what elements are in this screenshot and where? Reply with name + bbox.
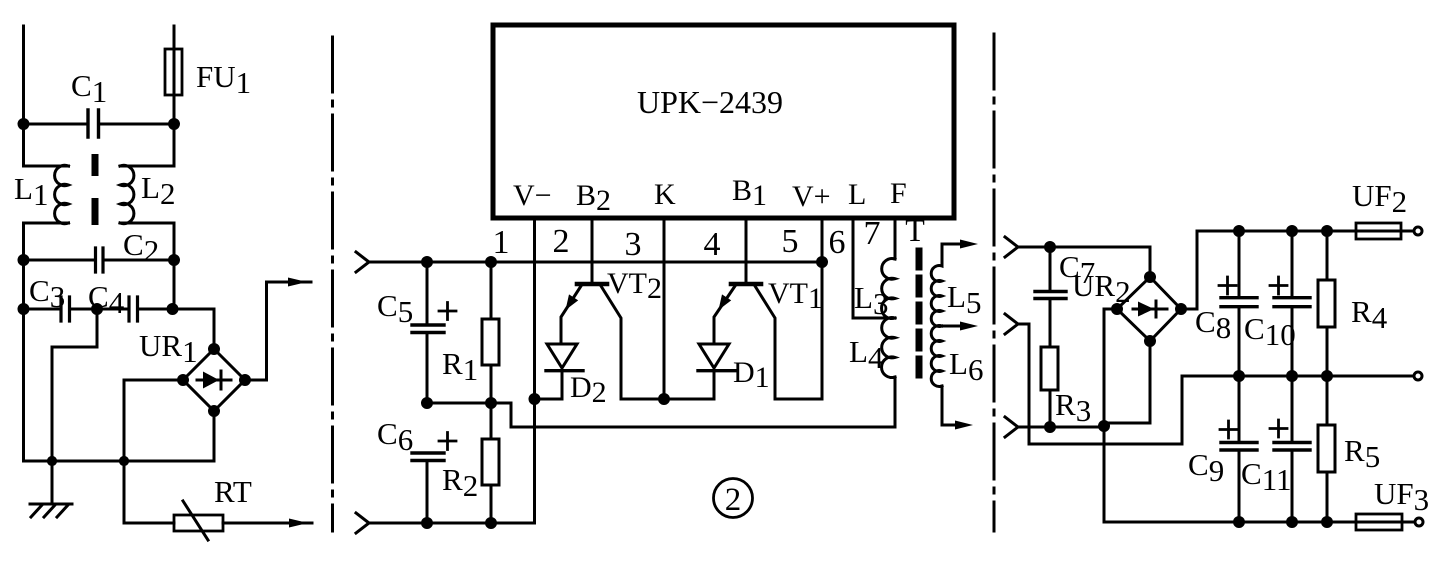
node V+ bus — [818, 258, 827, 267]
svg-text:1: 1 — [493, 224, 510, 261]
wire bridge bottom corner — [1104, 341, 1150, 423]
diode D2 — [547, 344, 577, 368]
svg-text:B2: B2 — [576, 179, 611, 217]
transformer core (L1/L2) — [92, 154, 99, 176]
svg-text:C1: C1 — [71, 68, 107, 109]
wire mid zero rail — [1182, 375, 1414, 378]
svg-text:2: 2 — [725, 482, 742, 518]
circled figure number 2 — [714, 479, 753, 518]
svg-text:C9: C9 — [1188, 447, 1224, 488]
input connector right-1 — [1005, 237, 1018, 257]
fuse UF3 — [1356, 514, 1402, 530]
section divider left — [331, 37, 334, 531]
inductor L3 — [882, 259, 895, 319]
wire — [22, 260, 25, 309]
svg-text:6: 6 — [829, 224, 846, 261]
node ground/bottom crossing — [48, 457, 55, 464]
svg-text:L5: L5 — [947, 279, 981, 320]
terminal UF2 — [1414, 227, 1422, 235]
capacitor C1 — [24, 123, 175, 126]
resistor R5 — [1326, 376, 1329, 522]
node R4-R5 mid — [1323, 372, 1332, 381]
node pin1-D2 junction — [530, 395, 539, 404]
wire top plus rail — [1197, 230, 1356, 233]
wire bottom minus rail — [1104, 521, 1356, 524]
input connector right-3 — [1005, 417, 1018, 437]
node right C1 junction — [170, 120, 179, 129]
node R3 bottom — [1046, 423, 1055, 432]
node C9 top — [1235, 372, 1244, 381]
svg-text:R4: R4 — [1351, 294, 1388, 335]
svg-text:C8: C8 — [1195, 304, 1231, 345]
svg-text:UF3: UF3 — [1374, 476, 1429, 517]
node R1 top — [487, 258, 496, 267]
node left C2 junction — [19, 256, 28, 265]
wire UR1 left ac node down — [124, 380, 183, 523]
transistor VT1 — [731, 282, 761, 287]
fuse FU1 — [165, 49, 182, 95]
wire bridge bottom to bottom line — [213, 411, 216, 461]
node C5-C6 mid — [423, 399, 432, 408]
svg-text:FU1: FU1 — [196, 59, 251, 100]
svg-text:R3: R3 — [1055, 387, 1091, 428]
svg-text:C2: C2 — [123, 227, 159, 268]
svg-text:VT1: VT1 — [768, 277, 823, 315]
svg-text:R2: R2 — [442, 462, 478, 503]
pin 6 wire L — [853, 218, 895, 318]
node C10 top — [1288, 227, 1297, 236]
terminal mid rail — [1414, 372, 1422, 380]
wire ac2 run to mid rail — [1018, 324, 1182, 444]
svg-text:L: L — [848, 178, 866, 211]
input connector top — [356, 252, 369, 272]
node left C1 junction — [19, 120, 28, 129]
svg-text:L1: L1 — [14, 171, 48, 212]
svg-text:C3: C3 — [29, 273, 65, 314]
svg-text:UPK−2439: UPK−2439 — [637, 84, 783, 120]
capacitor C5 — [426, 262, 429, 324]
wire bottom line — [24, 309, 215, 461]
svg-text:F: F — [890, 177, 907, 210]
svg-text:L4: L4 — [849, 334, 884, 375]
wire bridge right corner up — [1181, 231, 1197, 309]
node R5 bottom — [1323, 518, 1332, 527]
node left C3 junction — [19, 305, 28, 314]
wire — [173, 260, 176, 309]
node C7 top — [1046, 243, 1055, 252]
node right C2 junction — [170, 256, 179, 265]
arrow dc+ output — [288, 278, 307, 287]
thermistor RT — [174, 515, 223, 531]
capacitor C10 — [1291, 231, 1294, 296]
node C11 bottom — [1288, 518, 1297, 527]
wire to ground — [52, 309, 97, 502]
bridge rectifier UR1 — [183, 349, 245, 411]
resistor R3 — [1041, 347, 1058, 390]
resistor R1 — [490, 262, 493, 403]
pin 4 wire B1 — [745, 218, 748, 282]
capacitor C6 — [412, 453, 444, 461]
inductor L1 — [55, 165, 69, 223]
svg-text:V−: V− — [513, 179, 552, 212]
node C3-C4 junction — [93, 305, 102, 314]
capacitor C7 — [1049, 247, 1052, 290]
section divider right — [993, 34, 996, 531]
capacitor C11 — [1291, 376, 1294, 441]
node RT/bottom crossing — [120, 457, 127, 464]
transformer core T — [916, 251, 923, 386]
node R2 bottom — [487, 519, 496, 528]
svg-text:UF2: UF2 — [1352, 178, 1407, 219]
pin 1 wire V- — [533, 218, 536, 523]
svg-text:L6: L6 — [949, 346, 983, 387]
terminal UF3 — [1415, 518, 1423, 526]
svg-text:2: 2 — [553, 223, 570, 260]
node C5 top — [423, 258, 432, 267]
fuse UF2 — [1356, 223, 1401, 239]
svg-text:UR2: UR2 — [1072, 268, 1131, 309]
wire ac1 to bridge top — [1018, 247, 1150, 277]
svg-text:VT2: VT2 — [607, 267, 662, 305]
wire bottom bus — [369, 522, 535, 525]
svg-text:5: 5 — [782, 223, 799, 260]
svg-text:L3: L3 — [854, 280, 888, 321]
wire — [24, 124, 69, 166]
svg-text:D2: D2 — [570, 371, 607, 409]
capacitor C3 — [24, 308, 60, 311]
svg-text:4: 4 — [704, 226, 721, 263]
arrow RT output — [289, 519, 308, 528]
resistor R4 — [1326, 231, 1329, 376]
svg-text:C10: C10 — [1244, 311, 1296, 352]
svg-text:T: T — [905, 212, 925, 248]
pin 2 wire B2 — [591, 218, 594, 282]
svg-text:C5: C5 — [377, 288, 413, 329]
wire top bus — [369, 261, 822, 264]
svg-text:B1: B1 — [732, 174, 767, 212]
node C6 bottom — [423, 519, 432, 528]
svg-text:L2: L2 — [141, 170, 175, 211]
diode D1 — [699, 344, 729, 368]
inductor L5 — [931, 244, 942, 327]
svg-text:3: 3 — [625, 226, 642, 263]
svg-text:UR1: UR1 — [139, 328, 198, 369]
ground — [30, 504, 72, 517]
wire bridge left corner down — [1104, 309, 1117, 522]
wire mid link and feedback run — [427, 377, 895, 427]
pin 3 wire K — [663, 218, 666, 399]
inductor L2 — [120, 124, 174, 166]
node K junction — [660, 395, 669, 404]
svg-text:V+: V+ — [792, 180, 831, 213]
transistor VT2 — [577, 282, 607, 287]
resistor R2 — [490, 403, 493, 523]
wire connector-3 to node — [1018, 426, 1104, 429]
svg-text:C11: C11 — [1241, 456, 1292, 497]
bridge rectifier UR2 — [1117, 277, 1181, 341]
node C11 top — [1288, 372, 1297, 381]
svg-text:R5: R5 — [1344, 433, 1380, 474]
svg-text:R1: R1 — [442, 346, 478, 387]
wire to bridge top — [173, 309, 215, 349]
svg-text:C6: C6 — [377, 416, 413, 457]
node C9 bottom — [1235, 518, 1244, 527]
wire RT output — [223, 522, 312, 525]
pin 5 wire V+ — [821, 218, 824, 399]
svg-text:7: 7 — [864, 215, 881, 252]
wire left mains lead — [22, 26, 25, 124]
node right C4 junction — [168, 305, 177, 314]
node C8 top — [1235, 227, 1244, 236]
inductor L6 — [931, 326, 962, 426]
capacitor C2 — [24, 259, 175, 262]
wire UR1 dc+ output — [245, 282, 311, 380]
svg-text:RT: RT — [214, 474, 252, 509]
capacitor C9 — [1238, 376, 1241, 441]
capacitor C4 — [97, 308, 127, 311]
capacitor C8 — [1238, 231, 1241, 296]
pin 7 wire F — [894, 218, 897, 259]
wire — [24, 223, 69, 260]
IC UPK-2439 — [493, 25, 954, 218]
svg-text:D1: D1 — [733, 356, 770, 394]
node R1-R2 mid — [487, 399, 496, 408]
svg-text:K: K — [654, 178, 676, 211]
node bridge minus junction — [1100, 422, 1109, 431]
node R4 top — [1323, 227, 1332, 236]
svg-text:C4: C4 — [88, 279, 125, 320]
input connector bottom — [356, 513, 369, 533]
input connector right-2 — [1005, 314, 1018, 334]
inductor L4 — [882, 318, 895, 427]
wire right mains lead — [173, 26, 176, 124]
